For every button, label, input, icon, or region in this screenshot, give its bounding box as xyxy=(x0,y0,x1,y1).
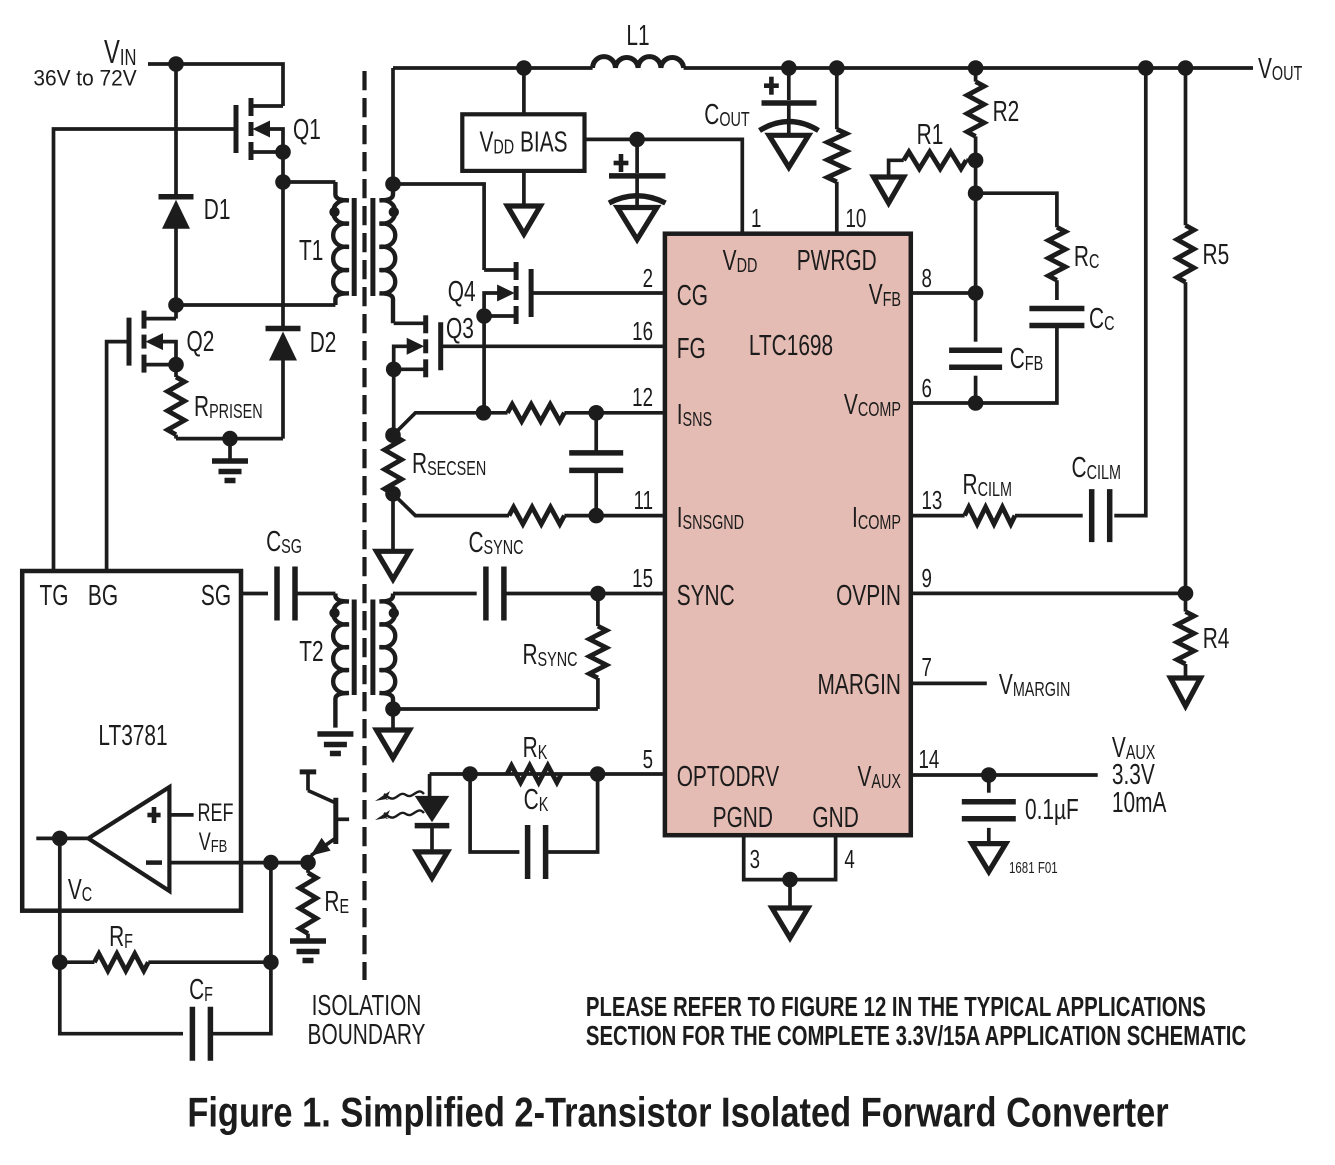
label LT3781 xyxy=(98,720,167,752)
svg-text:Figure 1. Simplified 2-Transis: Figure 1. Simplified 2-Transistor Isolat… xyxy=(187,1089,1168,1136)
capacitor VAUX 0.1uF xyxy=(962,775,1016,844)
wire primary ground rail xyxy=(176,437,283,441)
svg-text:RF: RF xyxy=(109,921,133,953)
node D1 anode junction xyxy=(168,297,184,313)
wire VAUX xyxy=(911,773,1098,777)
node VFB junction xyxy=(263,855,279,871)
label SG xyxy=(201,580,231,612)
svg-text:VDD BIAS: VDD BIAS xyxy=(479,126,567,158)
transformer T2 secondary winding xyxy=(380,594,396,710)
label COUT xyxy=(704,99,750,131)
svg-text:OPTODRV: OPTODRV xyxy=(677,761,780,793)
capacitor ISNS filter xyxy=(569,413,623,516)
label D1 xyxy=(204,194,231,226)
resistor R2 xyxy=(967,68,984,160)
label VAUX output xyxy=(1112,732,1167,819)
label RF xyxy=(109,921,133,953)
svg-text:LTC1698: LTC1698 xyxy=(749,330,833,362)
transistor opto phototransistor xyxy=(300,772,349,863)
wire T1 primary top xyxy=(283,180,335,184)
pin 9 label xyxy=(922,563,932,593)
resistor RK xyxy=(507,766,561,783)
node VIN xyxy=(168,56,184,72)
capacitor CSG xyxy=(277,567,295,621)
label CF xyxy=(189,974,213,1006)
svg-text:D2: D2 xyxy=(310,327,337,359)
label VOUT xyxy=(1258,53,1303,85)
wire VFB feedback xyxy=(169,861,311,865)
isolation boundary dashed line xyxy=(362,71,366,980)
label T1 xyxy=(299,235,323,267)
svg-text:COUT: COUT xyxy=(704,99,750,131)
svg-text:Q3: Q3 xyxy=(446,313,474,345)
node VCOMP node xyxy=(968,395,984,411)
diode D1 xyxy=(159,64,194,305)
node R5 top xyxy=(1178,60,1194,76)
svg-text:RE: RE xyxy=(324,886,349,918)
label 36V to 72V xyxy=(33,66,137,91)
wire Q4 source down xyxy=(482,316,486,413)
node SYNC junction xyxy=(590,586,606,602)
node Q3 source xyxy=(386,362,402,378)
label ISOLATION BOUNDARY xyxy=(308,990,426,1051)
label MARGIN pin xyxy=(818,669,901,701)
node Q1 source xyxy=(275,144,291,160)
label RC xyxy=(1074,241,1099,273)
svg-text:SECTION FOR THE COMPLETE 3.3V/: SECTION FOR THE COMPLETE 3.3V/15A APPLIC… xyxy=(586,1021,1246,1052)
label RK xyxy=(523,732,548,764)
wire VIN rail xyxy=(148,64,283,106)
svg-text:TG: TG xyxy=(40,580,69,612)
block VDD BIAS xyxy=(462,114,584,171)
node RK right xyxy=(590,766,606,782)
node RSECSEN top xyxy=(385,427,401,443)
transformer T2 primary winding xyxy=(333,594,349,728)
node T1 primary top xyxy=(275,174,291,190)
wire VFB pin xyxy=(911,291,976,295)
label VDD BIAS xyxy=(479,126,567,158)
wire RSYNC to T2 xyxy=(393,707,598,711)
label PGND pin xyxy=(713,802,773,834)
svg-text:BG: BG xyxy=(88,580,118,612)
label CG pin xyxy=(677,280,708,312)
label VIN xyxy=(104,34,136,71)
label ISNS pin xyxy=(677,399,712,431)
svg-text:PGND: PGND xyxy=(713,802,773,834)
pin 8 label xyxy=(922,263,932,293)
label Q3 xyxy=(446,313,474,345)
node RSECSEN bottom xyxy=(385,486,401,502)
wire T1 to Q4 drain xyxy=(393,184,484,270)
ground R1 xyxy=(874,160,904,203)
label Q4 xyxy=(448,276,476,308)
label RE xyxy=(324,886,349,918)
node R2 top xyxy=(968,60,984,76)
ground VDD BIAS xyxy=(507,171,540,234)
ground R4 xyxy=(1171,678,1201,706)
op-amp error amplifier xyxy=(88,787,169,891)
svg-text:7: 7 xyxy=(922,652,932,682)
node RF left xyxy=(52,954,68,970)
label Q1 xyxy=(293,114,321,146)
T1 secondary phase dot xyxy=(389,207,399,217)
svg-text:6: 6 xyxy=(922,373,932,403)
pin 16 label xyxy=(632,316,653,346)
wire opamp output xyxy=(36,837,88,841)
svg-text:CK: CK xyxy=(524,784,549,816)
label OVPIN pin xyxy=(836,580,901,612)
capacitor CFB xyxy=(949,293,1002,403)
resistor RE xyxy=(300,863,317,941)
svg-text:RSECSEN: RSECSEN xyxy=(412,448,486,480)
node ISNS junction xyxy=(476,405,492,421)
capacitor CF xyxy=(60,962,271,1060)
wire CC to VCOMP xyxy=(976,326,1057,403)
label R4 xyxy=(1203,623,1230,655)
label R1 xyxy=(917,119,944,151)
label FG pin xyxy=(677,333,706,365)
node RC branch xyxy=(968,185,984,201)
wire CG xyxy=(531,291,665,295)
label CCILM xyxy=(1072,452,1121,484)
capacitor VDD bypass xyxy=(609,139,666,239)
ground opto LED xyxy=(417,852,448,878)
wire T1 primary bottom xyxy=(176,303,335,307)
inductor L1 xyxy=(593,57,684,68)
label R5 xyxy=(1203,239,1230,271)
label ISNSGND pin xyxy=(677,502,744,534)
pin 15 label xyxy=(632,563,653,593)
svg-text:BOUNDARY: BOUNDARY xyxy=(308,1019,426,1051)
pin 1 label xyxy=(751,203,761,233)
label CSYNC xyxy=(468,527,523,559)
svg-text:T1: T1 xyxy=(299,235,323,267)
label CK xyxy=(524,784,549,816)
resistor RPRISEN xyxy=(168,365,185,439)
label D2 xyxy=(310,327,337,359)
node R1 junction xyxy=(968,153,984,169)
wire CSYNC to SYNC pin xyxy=(504,592,665,596)
label 0.1uF xyxy=(1025,794,1079,826)
node VFB node xyxy=(968,285,984,301)
pin 14 label xyxy=(919,744,940,774)
wire VC down xyxy=(58,838,62,962)
svg-text:L1: L1 xyxy=(626,20,649,52)
label ICOMP pin xyxy=(852,502,901,534)
resistor R4 xyxy=(1177,593,1194,678)
resistor RC xyxy=(1048,227,1065,280)
svg-text:3: 3 xyxy=(750,844,760,874)
label VFB internal xyxy=(199,827,228,857)
label RPRISEN xyxy=(194,391,263,423)
svg-text:CSYNC: CSYNC xyxy=(468,527,523,559)
svg-text:Q4: Q4 xyxy=(448,276,476,308)
COUT plus sign xyxy=(764,77,779,95)
svg-text:LT3781: LT3781 xyxy=(98,720,167,752)
svg-text:1681 F01: 1681 F01 xyxy=(1009,858,1058,876)
node RE top xyxy=(300,855,316,871)
resistor PWRGD pullup xyxy=(827,68,846,234)
pin 7 label xyxy=(922,652,932,682)
svg-text:SYNC: SYNC xyxy=(677,580,735,612)
resistor R5 xyxy=(1177,68,1194,593)
svg-text:CFB: CFB xyxy=(1010,343,1043,375)
label GND pin xyxy=(812,802,858,834)
label LTC1698 xyxy=(749,330,833,362)
node OVPIN R4 xyxy=(1178,586,1194,602)
wire OVPIN xyxy=(911,592,1186,596)
wire Q2 gate xyxy=(107,342,129,571)
svg-text:1: 1 xyxy=(751,203,761,233)
svg-text:MARGIN: MARGIN xyxy=(818,669,901,701)
svg-text:CG: CG xyxy=(677,280,708,312)
wire T1 secondary to rail xyxy=(391,68,395,184)
svg-text:ISOLATION: ISOLATION xyxy=(312,990,422,1022)
node PWRGD pullup tap xyxy=(829,60,845,76)
label VMARGIN xyxy=(999,669,1070,701)
IC LT3781 body xyxy=(22,571,241,911)
label SYNC pin xyxy=(677,580,735,612)
node T2 secondary bottom xyxy=(385,701,401,717)
node RK left xyxy=(462,766,478,782)
pin 3 label xyxy=(750,844,760,874)
wire VDD BIAS feed xyxy=(522,68,526,114)
svg-text:SG: SG xyxy=(201,580,231,612)
label CSG xyxy=(266,526,302,558)
pin 2 label xyxy=(643,263,653,293)
svg-text:PWRGD: PWRGD xyxy=(797,245,877,277)
svg-text:10: 10 xyxy=(846,203,867,233)
label VCOMP pin xyxy=(844,389,901,421)
resistor R1 xyxy=(904,152,976,169)
wire OPTODRV xyxy=(430,772,665,776)
label T2 xyxy=(299,636,323,668)
label VAUX pin xyxy=(858,761,902,793)
svg-text:15: 15 xyxy=(632,563,653,593)
diode D2 xyxy=(266,182,301,439)
pin 12 label xyxy=(632,382,653,412)
wire RC branch xyxy=(976,160,1057,293)
node Q4 source xyxy=(476,308,492,324)
svg-text:2: 2 xyxy=(643,263,653,293)
wire Q1 source to T1 xyxy=(281,152,285,182)
svg-text:CCILM: CCILM xyxy=(1072,452,1121,484)
capacitor COUT xyxy=(760,68,819,167)
resistor ISNS filter xyxy=(508,404,565,421)
svg-text:4: 4 xyxy=(844,844,854,874)
capacitor CC xyxy=(1029,309,1084,326)
wire Q2 drain xyxy=(174,305,178,319)
ground VAUX cap xyxy=(972,844,1006,872)
transistor Q4 xyxy=(484,262,531,324)
node VDD cap tap xyxy=(629,132,645,148)
svg-text:R1: R1 xyxy=(917,119,944,151)
label RCILM xyxy=(963,469,1012,501)
pin 10 label xyxy=(846,203,867,233)
wire CCILM rail drop xyxy=(1114,68,1146,516)
svg-text:RC: RC xyxy=(1074,241,1099,273)
svg-text:13: 13 xyxy=(922,485,943,515)
ground IC xyxy=(772,880,808,938)
label CFB xyxy=(1010,343,1043,375)
wire top VOUT rail xyxy=(393,66,1253,70)
pin 4 label xyxy=(844,844,854,874)
svg-text:R4: R4 xyxy=(1203,623,1230,655)
node VC xyxy=(52,831,68,847)
T2 secondary phase dot xyxy=(389,608,399,618)
label 1681 F01 xyxy=(1009,858,1058,876)
svg-text:9: 9 xyxy=(922,563,932,593)
capacitor CSYNC xyxy=(486,567,504,621)
svg-text:PLEASE REFER TO FIGURE 12 IN T: PLEASE REFER TO FIGURE 12 IN THE TYPICAL… xyxy=(586,992,1206,1023)
svg-text:Q2: Q2 xyxy=(187,326,215,358)
transformer T1 primary winding xyxy=(333,182,349,305)
svg-text:D1: D1 xyxy=(204,194,231,226)
node IC ground xyxy=(782,872,798,888)
label OPTODRV pin xyxy=(677,761,780,793)
wire VDD BIAS to pin1 xyxy=(585,139,743,233)
label TG xyxy=(40,580,69,612)
svg-text:8: 8 xyxy=(922,263,932,293)
wire PGND GND to ground xyxy=(744,835,836,879)
ground primary xyxy=(212,439,248,481)
node RF right xyxy=(263,954,279,970)
node COUT tap xyxy=(781,60,797,76)
ground T2 primary xyxy=(317,734,353,754)
node Q2 source xyxy=(168,357,184,373)
svg-text:RSYNC: RSYNC xyxy=(522,639,577,671)
svg-text:Q1: Q1 xyxy=(293,114,321,146)
ground RE xyxy=(290,941,326,961)
svg-text:CSG: CSG xyxy=(266,526,302,558)
node ISNS cap top xyxy=(588,405,604,421)
transformer T1 secondary winding xyxy=(380,184,396,323)
node VAUX cap xyxy=(981,767,997,783)
label CC xyxy=(1089,303,1114,335)
wire T2 to CSYNC xyxy=(393,592,477,596)
wire VFB to RF xyxy=(269,863,273,963)
label Q2 xyxy=(187,326,215,358)
transformer T2 core xyxy=(354,600,373,696)
transistor Q1 xyxy=(236,98,283,160)
caption Figure 1 xyxy=(187,1089,1168,1136)
T2 primary phase dot xyxy=(329,608,339,618)
svg-text:11: 11 xyxy=(634,485,653,515)
node ISNSGND cap bottom xyxy=(588,508,604,524)
ground RSECSEN xyxy=(377,494,410,580)
IC LTC1698 body xyxy=(665,234,911,836)
label L1 xyxy=(626,20,649,52)
T1 primary phase dot xyxy=(329,207,339,217)
svg-text:5: 5 xyxy=(643,744,653,774)
svg-text:OVPIN: OVPIN xyxy=(836,580,901,612)
wire RC to CC xyxy=(1055,280,1059,300)
svg-text:R2: R2 xyxy=(993,96,1020,128)
svg-text:10mA: 10mA xyxy=(1112,787,1167,819)
pin 5 label xyxy=(643,744,653,774)
note PLEASE REFER xyxy=(586,992,1246,1052)
svg-text:VOUT: VOUT xyxy=(1258,53,1303,85)
wire Q3 source down xyxy=(392,369,396,435)
svg-text:R5: R5 xyxy=(1203,239,1230,271)
label PWRGD pin xyxy=(797,245,877,277)
transformer T1 core xyxy=(354,198,373,296)
wire FG xyxy=(441,344,665,348)
ground T2 secondary xyxy=(377,709,410,758)
label REF xyxy=(198,798,234,827)
resistor RF xyxy=(60,954,271,971)
svg-text:0.1µF: 0.1µF xyxy=(1025,794,1079,826)
node CCILM rail tap xyxy=(1138,60,1154,76)
wire VCOMP pin xyxy=(911,401,976,405)
svg-text:12: 12 xyxy=(632,382,653,412)
label RSECSEN xyxy=(412,448,486,480)
pin 13 label xyxy=(922,485,943,515)
label VC xyxy=(68,874,92,906)
node VDD BIAS tap xyxy=(516,60,532,76)
label RSYNC xyxy=(522,639,577,671)
svg-text:CC: CC xyxy=(1089,303,1114,335)
resistor ISNSGND filter xyxy=(509,507,564,524)
resistor RCILM xyxy=(911,507,1083,524)
label VDD pin xyxy=(723,245,758,277)
svg-text:14: 14 xyxy=(919,744,940,774)
wire SG to CSG xyxy=(241,592,268,596)
VDD cap plus sign xyxy=(614,154,629,172)
pin 6 label xyxy=(922,373,932,403)
resistor RSECSEN xyxy=(385,435,402,494)
wire Q1 gate xyxy=(54,129,236,571)
capacitor CCILM xyxy=(1092,489,1110,542)
node primary ground xyxy=(222,431,238,447)
node T1 secondary top xyxy=(385,176,401,192)
opto light arrows xyxy=(375,791,424,820)
pin 11 label xyxy=(634,485,653,515)
transistor Q3 xyxy=(394,315,441,377)
svg-text:T2: T2 xyxy=(299,636,323,668)
svg-text:GND: GND xyxy=(812,802,858,834)
svg-text:RK: RK xyxy=(523,732,548,764)
wire CSG to T2 xyxy=(295,592,335,596)
wire REF stub xyxy=(169,813,193,817)
svg-text:16: 16 xyxy=(632,316,653,346)
resistor RSYNC xyxy=(589,594,606,710)
svg-text:RCILM: RCILM xyxy=(963,469,1012,501)
label VFB pin xyxy=(869,279,901,311)
label BG xyxy=(88,580,118,612)
svg-text:36V to 72V: 36V to 72V xyxy=(33,66,137,91)
wire ISNS xyxy=(393,413,665,435)
wire ISNSGND xyxy=(393,494,665,516)
svg-text:FG: FG xyxy=(677,333,706,365)
label R2 xyxy=(993,96,1020,128)
wire MARGIN xyxy=(911,682,987,686)
svg-text:REF: REF xyxy=(198,798,234,827)
svg-text:RPRISEN: RPRISEN xyxy=(194,391,263,423)
svg-text:VMARGIN: VMARGIN xyxy=(999,669,1070,701)
svg-text:CF: CF xyxy=(189,974,213,1006)
diode opto LED xyxy=(415,774,450,852)
capacitor CK xyxy=(470,774,597,879)
transistor Q2 xyxy=(129,311,176,373)
